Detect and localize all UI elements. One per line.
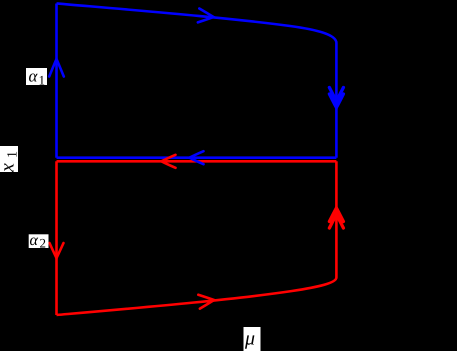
wire: blue middle horizontal segment [57, 156, 337, 159]
svg-text:μ: μ [244, 328, 255, 350]
arrow: double down arrow on blue right vertical [329, 88, 343, 108]
svg-text:α: α [30, 232, 39, 249]
svg-text:1: 1 [39, 73, 46, 88]
svg-text:1: 1 [6, 151, 21, 158]
svg-text:2: 2 [40, 236, 47, 251]
blue arrows [49, 8, 343, 164]
wire: red bottom sloped curve with rounded right corner [57, 278, 337, 316]
wire: blue left vertical segment [55, 4, 58, 158]
red hysteresis loop (lower branch cycle) [57, 161, 337, 315]
wire: blue right vertical segment [335, 43, 338, 158]
svg-text:α: α [29, 67, 39, 86]
wire: red right vertical segment [335, 161, 338, 277]
arrow: left arrow on red middle line [162, 155, 176, 168]
blue hysteresis loop (upper branch cycle) [57, 3, 337, 157]
arrow: left arrow on blue middle line [190, 151, 204, 164]
wire: blue top sloped curve with rounded right corner [57, 3, 337, 43]
arrow: up arrow on blue left vertical [49, 59, 64, 77]
label alpha_2 [29, 232, 49, 251]
arrow: right arrow on blue top curve [198, 8, 214, 23]
wire: red middle horizontal segment [57, 160, 337, 163]
red arrows [50, 155, 344, 309]
label mu (x-axis label) [244, 327, 261, 351]
label alpha_1 [26, 67, 47, 88]
svg-text:x: x [0, 163, 19, 173]
arrow: double up arrow on red right vertical [329, 208, 343, 228]
label x_1 (rotated y-axis label) [0, 146, 21, 173]
arrow: right arrow on red bottom curve [198, 293, 214, 309]
wire: red left vertical segment [55, 161, 58, 315]
arrow: down arrow on red left vertical [50, 243, 64, 258]
